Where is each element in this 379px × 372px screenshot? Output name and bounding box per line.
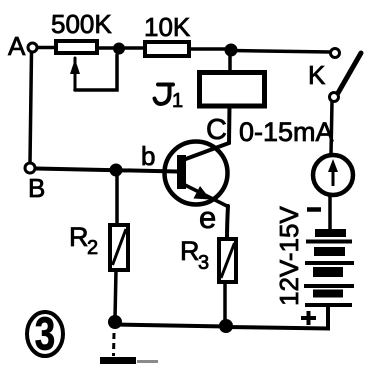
svg-text:2: 2 <box>87 237 98 259</box>
svg-text:b: b <box>141 141 155 171</box>
svg-text:10K: 10K <box>144 12 191 42</box>
svg-text:3: 3 <box>35 308 55 360</box>
svg-text:0-15mA: 0-15mA <box>239 117 334 147</box>
svg-text:3: 3 <box>198 252 209 274</box>
svg-text:B: B <box>28 173 45 203</box>
svg-text:C: C <box>206 114 227 146</box>
svg-text:K: K <box>308 60 326 90</box>
svg-text:1: 1 <box>172 90 183 112</box>
svg-text:R: R <box>69 222 89 252</box>
svg-text:R: R <box>180 236 200 266</box>
svg-text:12V-15V: 12V-15V <box>274 206 304 306</box>
svg-text:A: A <box>8 31 26 61</box>
svg-text:500K: 500K <box>51 9 112 39</box>
svg-text:e: e <box>199 200 216 235</box>
